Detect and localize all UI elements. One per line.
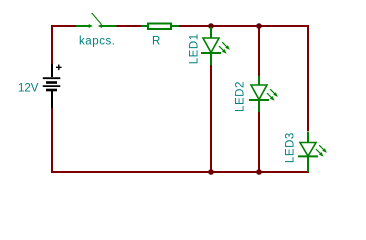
LED D2 (249, 76, 278, 112)
LED D3 (298, 132, 327, 173)
LED2 light arrow lower (267, 93, 272, 98)
LED3 cathode bar (298, 155, 318, 157)
LED1 anode pin (210, 27, 212, 39)
wire: top segment from resistor to right corner (179, 25, 309, 27)
LED3 anode pin (307, 132, 309, 144)
resistor R (141, 24, 179, 30)
LED1 cathode bar (201, 52, 221, 54)
switch left contact arrowhead (89, 24, 93, 28)
LED1 cathode pin (210, 53, 212, 65)
LED1 triangle (203, 38, 219, 53)
switch left pin wire (76, 25, 90, 27)
battery bottom pin (51, 91, 53, 108)
wire: LED2 branch upper segment (top wire to LED2 anode) (258, 27, 260, 77)
battery plate short thick (negative) (46, 81, 57, 84)
svg-text:LED2: LED2 (235, 81, 247, 112)
wire: right vertical segment (top corner down to LED3 anode) (307, 25, 309, 131)
wire: LED1 branch lower segment (LED1 cathode to bottom wire) (210, 65, 212, 172)
node: junction dot top of LED2 branch (256, 23, 262, 29)
LED1 light arrow lower (219, 46, 224, 51)
battery plate long (positive) (43, 85, 61, 87)
LED3 light arrow upper (319, 145, 324, 150)
resistor body (148, 24, 171, 30)
wire: left vertical upper segment (top corner down to battery) (51, 25, 53, 65)
switch S (kapcs.) (76, 13, 117, 28)
svg-text:kapcs.: kapcs. (79, 35, 116, 47)
resistor right pin (171, 25, 179, 27)
LED2 cathode pin (258, 100, 260, 112)
LED3 cathode pin (307, 156, 309, 172)
battery plate long (positive, top) (43, 77, 61, 79)
wire: left vertical lower segment (battery to bottom corner) (51, 107, 53, 172)
battery plate short thick (negative, bottom) (46, 89, 57, 92)
battery top pin (51, 64, 53, 77)
wire: bottom horizontal segment (left corner to LED3 cathode) (51, 171, 309, 173)
node: junction dot top of LED1 branch (208, 23, 214, 29)
svg-text:LED1: LED1 (189, 33, 201, 64)
node: junction dot bottom of LED2 branch (256, 169, 262, 175)
svg-text:R: R (152, 36, 160, 48)
svg-text:LED3: LED3 (285, 132, 297, 163)
LED3 light arrow lower (316, 149, 321, 154)
LED1 light arrow upper (222, 42, 227, 47)
wire: top-left horizontal segment (battery top to switch) (51, 25, 77, 27)
wire: LED2 branch lower segment (LED2 cathode to bottom wire) (258, 112, 260, 172)
LED2 light arrow upper (270, 89, 275, 94)
LED2 cathode bar (249, 99, 269, 101)
LED2 anode pin (258, 76, 260, 86)
battery plus sign (56, 65, 62, 71)
switch right pin wire (101, 25, 117, 27)
battery 12V (43, 64, 62, 108)
node: junction dot bottom of LED1 branch (208, 169, 214, 175)
resistor left pin (141, 25, 148, 27)
LED D1 (201, 27, 230, 65)
wire: top segment between switch and resistor (116, 25, 141, 27)
switch right contact arrowhead (98, 24, 102, 28)
LED2 triangle (251, 85, 267, 100)
switch lever (open blade) (92, 13, 102, 24)
LED3 triangle (300, 143, 316, 157)
svg-text:12V: 12V (18, 82, 39, 94)
